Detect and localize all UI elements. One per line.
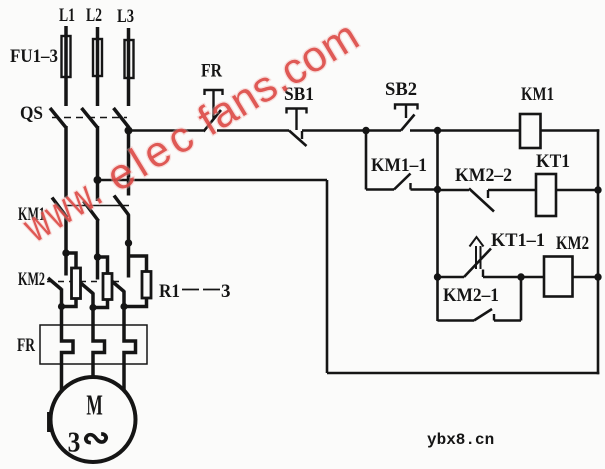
- svg-text:ybx8.cn: ybx8.cn: [427, 431, 494, 449]
- svg-text:FU1–3: FU1–3: [10, 46, 58, 67]
- thermal relay FR heater 1: [62, 307, 74, 365]
- svg-text:KM1: KM1: [521, 84, 554, 105]
- wire phase L3 QS to KM1: [127, 126, 131, 196]
- pushbutton SB1 blade: [289, 131, 307, 147]
- resistor R2: [103, 274, 112, 300]
- wire KM2-1 left: [438, 319, 475, 322]
- wire FR to motor phase 2: [91, 364, 95, 378]
- wire bus vertical x437: [436, 131, 439, 322]
- node bottom phase 2: [89, 304, 96, 311]
- switch QS label: [20, 103, 43, 124]
- wire KM1-1 right: [411, 188, 438, 191]
- wire KM2 pole 2 to node: [91, 293, 95, 308]
- wire phase L2 QS to KM1: [96, 126, 100, 201]
- wire KM1-1 left vertical: [365, 131, 368, 190]
- wire SB1 to node A: [302, 129, 366, 132]
- contact KM2-1 fixed tick: [493, 314, 495, 321]
- wire KM2 pole 3 to node: [122, 291, 126, 308]
- node right rail row3: [594, 273, 601, 280]
- resistor label dash lines: [182, 289, 220, 291]
- fuse FU3: [125, 40, 134, 78]
- wire coil KM2 to right rail: [573, 276, 599, 279]
- svg-text:3: 3: [68, 426, 81, 458]
- wire phase L3 KM1 to node: [127, 215, 131, 256]
- node L2 label: [86, 5, 102, 26]
- resistor R3 branch wires: [124, 256, 147, 307]
- contact KM1-1 fixed tick: [409, 183, 411, 190]
- wire phase L3 top: [127, 28, 131, 106]
- contact KM2-2 blade: [469, 189, 494, 212]
- svg-text:3: 3: [221, 281, 231, 302]
- wire right rail: [597, 129, 600, 374]
- coil KT1 label: [536, 151, 570, 172]
- thermal contact FR symbol: [205, 90, 223, 119]
- contact KT1-1 fixed tick: [482, 270, 484, 278]
- wire KM1-1 left horizontal: [366, 188, 394, 191]
- wire KM2-2 to coil KT1: [488, 189, 536, 192]
- wire node C to coil KM2: [521, 276, 544, 279]
- pushbutton SB1 label: [284, 84, 314, 105]
- coil KT1: [536, 174, 556, 216]
- contactor KM1 pole 2 blade: [84, 201, 99, 221]
- svg-text:KT1–1: KT1–1: [491, 230, 545, 251]
- motor tilde symbol: [82, 420, 111, 457]
- contactor KM1 main label: [18, 204, 45, 225]
- contactor KM2 pole 3: fixed wire: [127, 256, 131, 278]
- switch QS pole 3 blade: [114, 108, 129, 127]
- pushbutton SB1 fixed tick: [301, 131, 303, 139]
- node C junction: [517, 273, 524, 280]
- node bus row2: [434, 186, 441, 193]
- wire phase L1 QS to KM1: [64, 126, 68, 198]
- contact KM2-1 blade: [474, 309, 492, 321]
- node branch phase 1: [62, 249, 69, 256]
- svg-text:KM2: KM2: [18, 269, 45, 290]
- thermal contact FR blade: [204, 110, 222, 132]
- pushbutton SB2 actuator: [395, 105, 418, 119]
- motor label M: [86, 390, 102, 421]
- pushbutton SB2 label: [385, 79, 417, 100]
- coil KM1 label: [521, 84, 554, 105]
- wire FR to SB1: [217, 129, 289, 132]
- pushbutton SB1 actuator: [287, 109, 307, 131]
- node right rail row2: [594, 186, 601, 193]
- wire node B to coil KM1: [438, 129, 521, 132]
- coil KM2: [544, 257, 573, 297]
- node bus row3: [434, 273, 441, 280]
- node control return tap on L2: [94, 176, 102, 184]
- contactor KM1 pole 1 blade: [52, 198, 67, 218]
- wire coil KT1 to right rail: [556, 189, 598, 192]
- thermal relay FR label: [17, 335, 35, 356]
- fuse FU1: [62, 36, 71, 77]
- svg-text:FR: FR: [17, 335, 35, 356]
- wire KT1-1 to node C: [483, 276, 521, 279]
- node bottom phase 3: [120, 303, 127, 310]
- wire KM2 pole 1 to node: [60, 289, 64, 308]
- wire row3 left: [438, 276, 465, 279]
- contact KT1-1 label: [491, 230, 545, 251]
- svg-text:L2: L2: [86, 5, 102, 26]
- node L3 label: [117, 6, 134, 27]
- fuse label FU1-3: [10, 46, 58, 67]
- contactor KM2 pole 3 blade: [111, 280, 125, 292]
- wire control rail tap to FR: [129, 129, 204, 132]
- contact KM1-1 label: [371, 155, 427, 176]
- coil KM2 label: [556, 233, 589, 254]
- switch QS linkage dashed: [52, 117, 127, 119]
- thermal relay FR heater 3: [124, 307, 136, 365]
- contactor KM2 pole 1: fixed wire: [64, 253, 68, 276]
- svg-text:SB2: SB2: [385, 79, 417, 100]
- wire phase L2 top: [96, 27, 100, 106]
- wire KM2-1 up to node C: [520, 277, 523, 321]
- contact KT1-1 delay arrow: [470, 237, 484, 269]
- svg-text:R1: R1: [159, 281, 180, 302]
- svg-text:KM2–1: KM2–1: [443, 285, 499, 306]
- node branch phase 3: [125, 239, 132, 246]
- node bottom phase 1: [58, 303, 65, 310]
- contactor KM1 pole 3 blade: [114, 196, 129, 216]
- svg-text:∾: ∾: [82, 420, 111, 457]
- svg-text:QS: QS: [20, 103, 43, 124]
- svg-text:KM2–2: KM2–2: [455, 165, 512, 186]
- wire KM2-1 right: [494, 319, 521, 322]
- thermal relay FR box: [40, 325, 147, 364]
- node control tap on L3: [125, 127, 133, 135]
- node A junction: [362, 127, 369, 134]
- contactor KM2 pole 1 blade: [48, 278, 62, 290]
- wire coil KM1 to right rail: [541, 129, 600, 132]
- thermal contact FR label (control): [201, 61, 222, 82]
- wire SB2 to node B: [410, 129, 438, 132]
- svg-text:FR: FR: [201, 61, 222, 82]
- motor M circle: [51, 377, 136, 462]
- contactor KM2 linkage dashed: [47, 281, 120, 283]
- wire row2 left: [438, 189, 470, 192]
- svg-text:L1: L1: [59, 5, 75, 26]
- contactor KM1 linkage line: [66, 205, 129, 207]
- resistor R2 branch wires: [93, 257, 108, 308]
- svg-text:KT1: KT1: [536, 151, 570, 172]
- motor label 3: [68, 426, 81, 458]
- resistor R3: [142, 272, 151, 299]
- wire phase L1 top: [64, 26, 68, 106]
- wire phase L1 KM1 to node: [64, 217, 68, 253]
- resistor label R1-3: [159, 281, 231, 302]
- contactor KM2 pole 2: fixed wire: [96, 257, 100, 280]
- wire FR to motor phase 1: [60, 364, 64, 392]
- pushbutton SB2 blade: [401, 115, 415, 131]
- contact KM1-1 blade: [394, 174, 411, 190]
- fuse FU2: [93, 39, 102, 76]
- resistor R1: [72, 268, 81, 299]
- contact KM2-2 label: [455, 165, 512, 186]
- contact KM2-1 label: [443, 285, 499, 306]
- resistor R1 branch wires: [62, 253, 77, 307]
- contactor KM2 main label: [18, 269, 45, 290]
- wire node A to SB2: [366, 129, 401, 132]
- node L1 label: [59, 5, 75, 26]
- contact KT1-1 blade: [464, 249, 491, 278]
- switch QS pole 1 blade: [50, 108, 66, 127]
- motor shaft tick: [47, 412, 51, 432]
- wire control return horizontal: [98, 179, 328, 182]
- wire control bottom rail: [327, 372, 599, 375]
- svg-text:KM2: KM2: [556, 233, 589, 254]
- contactor KM2 pole 2 blade: [80, 282, 94, 294]
- svg-text:KM1–1: KM1–1: [371, 155, 427, 176]
- node branch phase 2: [94, 253, 101, 260]
- wire FR to motor phase 3: [122, 364, 126, 391]
- wire control return vertical: [326, 180, 329, 373]
- switch QS pole 2 blade: [82, 108, 98, 127]
- svg-text:L3: L3: [117, 6, 134, 27]
- wire phase L2 KM1 to node: [96, 221, 100, 258]
- thermal relay FR heater 2: [93, 308, 105, 365]
- svg-text:M: M: [86, 390, 102, 421]
- contact KM2-2 fixed tick: [487, 190, 489, 198]
- node B junction: [434, 127, 441, 134]
- coil KM1: [520, 114, 541, 148]
